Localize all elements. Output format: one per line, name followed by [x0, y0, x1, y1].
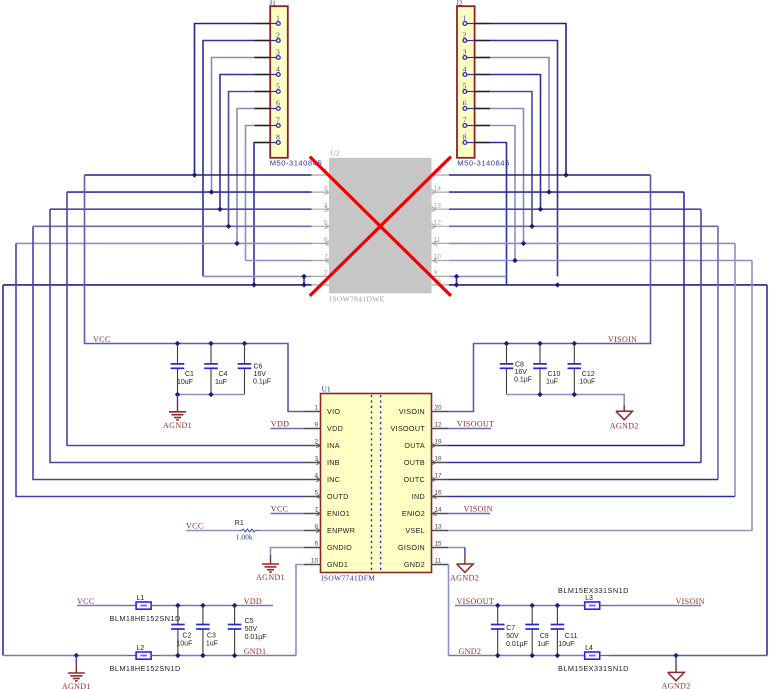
- wire J1 pin 7 row to U2 pin 7: [246, 260, 312, 262]
- wire net VISOOUT to L3: [455, 605, 574, 607]
- wire net GND1 rail from L2 to U1 GND1: [161, 655, 296, 657]
- svg-text:0.1µF: 0.1µF: [514, 377, 532, 384]
- svg-text:1uF: 1uF: [206, 640, 218, 647]
- wire net VCC: bus row to U2 pin 1: [85, 174, 312, 176]
- capacitor C8: [500, 344, 514, 395]
- U2 pin 11 (right): [432, 237, 450, 246]
- capacitor C6: [238, 344, 252, 395]
- svg-text:VISOOUT: VISOOUT: [457, 420, 495, 429]
- svg-text:10uF: 10uF: [177, 379, 193, 386]
- svg-text:C7: C7: [506, 625, 515, 632]
- wire J1 pin 7 to left bus row: [246, 126, 255, 261]
- resistor R1: [186, 529, 304, 532]
- wire J2 pin 7 to right bus row: [490, 126, 515, 261]
- svg-text:C9: C9: [540, 633, 549, 640]
- wire net VDD to U1 pin 9: [271, 428, 305, 430]
- wire U1 pin 11 GND2 down to GND2 rail: [447, 565, 450, 656]
- svg-text:OUTC: OUTC: [403, 475, 425, 484]
- J1 pin 3: [255, 48, 281, 60]
- svg-text:19: 19: [435, 438, 443, 445]
- capacitor C7 labels: [506, 625, 528, 648]
- J2 pin 8: [463, 133, 490, 145]
- junctions on VISOIN rail: [504, 341, 577, 346]
- svg-text:BLM18HE152SN1D: BLM18HE152SN1D: [110, 614, 181, 623]
- svg-text:OUTA: OUTA: [404, 441, 425, 450]
- svg-text:4: 4: [463, 65, 467, 74]
- svg-text:2: 2: [463, 31, 467, 40]
- wire J1 pin 1 to left bus row: [195, 24, 255, 176]
- junctions on right bus rows: [454, 172, 569, 287]
- svg-text:15: 15: [435, 540, 443, 547]
- svg-text:INA: INA: [327, 441, 340, 450]
- svg-text:C10: C10: [548, 371, 561, 378]
- svg-text:VISOIN: VISOIN: [608, 335, 637, 344]
- svg-text:VCC: VCC: [271, 504, 289, 513]
- wire net INB: down left side to U1 pin 3: [50, 209, 304, 462]
- svg-text:C11: C11: [565, 633, 577, 640]
- svg-text:U2: U2: [331, 148, 340, 157]
- svg-text:BLM15EX331SN1D: BLM15EX331SN1D: [558, 664, 629, 673]
- capacitor C2 labels: [176, 632, 192, 647]
- connector J2 body: [457, 6, 475, 158]
- U1 pin 11 GND2 (right): [404, 557, 448, 569]
- capacitor C11: [551, 606, 565, 656]
- IC U1 body (ISOW7741DFM): [321, 394, 432, 573]
- ground AGND2 (top right): [616, 406, 633, 420]
- wire U1 pin 10 GND1 down to GND1 rail: [296, 565, 304, 656]
- wire J2 pin 8 to right bus row: [490, 143, 507, 285]
- U1 pin 18 OUTB (right): [404, 455, 448, 467]
- wire net OUTA: down right side to U1 pin 19: [448, 192, 684, 445]
- U1 pin 2 INA (left): [304, 438, 340, 450]
- svg-text:7: 7: [276, 116, 280, 125]
- svg-text:VIO: VIO: [327, 407, 340, 416]
- wire J2 pin 5 to right bus row: [490, 92, 532, 227]
- svg-text:GND2: GND2: [459, 647, 482, 656]
- U1 pin 3 INB (left): [304, 455, 340, 467]
- svg-text:16V: 16V: [515, 369, 528, 376]
- svg-text:2: 2: [324, 270, 328, 277]
- U1 pin 19 OUTA (right): [404, 438, 448, 450]
- svg-text:J1: J1: [269, 0, 276, 8]
- capacitor C5 labels: [245, 618, 267, 641]
- wire net VISOIN from L3: [609, 605, 701, 607]
- svg-text:0.1µF: 0.1µF: [253, 378, 271, 385]
- wire net VSEL: down right side to U1 pin 13: [448, 261, 752, 531]
- svg-text:L4: L4: [585, 645, 593, 652]
- J2 pin 3: [463, 48, 490, 60]
- svg-text:50V: 50V: [245, 626, 258, 633]
- U2 pin 6 (left): [312, 237, 330, 246]
- U2 pin 16 (right): [432, 168, 450, 175]
- U1 isolation barrier dotted lines: [372, 395, 381, 571]
- svg-text:5: 5: [463, 82, 467, 91]
- svg-text:ENPWR: ENPWR: [327, 526, 355, 535]
- wire net IND: down right side to U1 pin 16: [448, 243, 735, 496]
- U1 pin 12 VISOOUT (right): [391, 421, 448, 433]
- U2 pin 7 (left): [312, 254, 330, 263]
- J1 pin 2: [255, 31, 281, 43]
- svg-text:C4: C4: [219, 371, 228, 378]
- svg-text:C6: C6: [254, 363, 263, 370]
- svg-text:10uF: 10uF: [558, 641, 574, 648]
- svg-text:VISOIN: VISOIN: [399, 407, 425, 416]
- wire net INC: down left side to U1 pin 4: [33, 226, 304, 479]
- U1 pin 13 VSEL (right): [405, 523, 448, 535]
- svg-text:AGND2: AGND2: [662, 681, 691, 689]
- wire net INC: bus row to U2 pin 5: [33, 225, 312, 227]
- J2 pin 1: [463, 14, 490, 26]
- svg-text:GNDIO: GNDIO: [327, 543, 352, 552]
- svg-text:6: 6: [276, 99, 280, 108]
- J2 pin 6: [463, 99, 490, 111]
- U2 pin 3 (left): [312, 185, 330, 194]
- svg-text:9: 9: [314, 421, 318, 428]
- U1 pin 14 ENIO2 (right): [402, 506, 448, 518]
- wire net GND2: bus row to U2 pin 15: [449, 284, 767, 286]
- capacitor C7: [491, 606, 505, 656]
- svg-text:AGND2: AGND2: [450, 574, 479, 583]
- wire J1 pin 8 to left bus row: [253, 143, 256, 285]
- svg-text:AGND1: AGND1: [163, 421, 192, 430]
- capacitor C10 labels: [546, 371, 560, 386]
- svg-text:5: 5: [276, 82, 280, 91]
- wire capacitor C8/C10/C12 ground rail: [507, 395, 625, 411]
- svg-text:3: 3: [276, 48, 280, 57]
- wire net OUTC: down right side to U1 pin 17: [448, 226, 718, 479]
- ground AGND1 (bottom left): [68, 656, 85, 681]
- svg-text:1: 1: [314, 404, 318, 411]
- svg-text:1uF: 1uF: [537, 641, 549, 648]
- svg-text:VISOIN: VISOIN: [676, 597, 705, 606]
- U1 pin 6 GNDIO (left): [304, 540, 352, 552]
- svg-text:6: 6: [314, 540, 318, 547]
- svg-text:ISOW7841DWE: ISOW7841DWE: [330, 295, 385, 304]
- capacitor C4: [204, 344, 218, 395]
- svg-text:VISOOUT: VISOOUT: [391, 424, 426, 433]
- J2 pin 7: [463, 116, 490, 128]
- svg-text:R1: R1: [235, 520, 244, 527]
- U1 pin 10 GND1 (left): [304, 557, 348, 569]
- J1 pin 5: [255, 82, 281, 94]
- capacitor C3: [196, 606, 210, 656]
- wire J1 pin 2 row to U2 pin 2: [203, 275, 312, 277]
- svg-text:1: 1: [463, 14, 467, 23]
- svg-text:GISOIN: GISOIN: [398, 543, 425, 552]
- wire net VCC: left bus down to VCC rail: [85, 175, 305, 412]
- U2 pin 10 (right): [432, 254, 450, 263]
- svg-text:VCC: VCC: [93, 335, 111, 344]
- U1 pin 1 VIO (left): [304, 404, 340, 416]
- svg-text:1: 1: [276, 14, 280, 23]
- svg-text:1uF: 1uF: [546, 378, 558, 385]
- wire J2 pin 6 to right bus row: [490, 109, 524, 244]
- svg-text:INC: INC: [327, 475, 340, 484]
- svg-text:VDD: VDD: [271, 420, 289, 429]
- junctions on GND1 rail: [74, 653, 238, 658]
- junctions on VDD rail: [175, 603, 237, 608]
- svg-text:L1: L1: [137, 595, 145, 602]
- junctions on C1/C4/C6 ground rail: [175, 392, 214, 397]
- svg-text:7: 7: [463, 116, 467, 125]
- wire net VDD from L1 to U1 area: [161, 605, 273, 607]
- U2 pin 2 (left): [312, 270, 330, 277]
- ground AGND2 (bottom right): [668, 656, 685, 681]
- svg-text:17: 17: [435, 472, 443, 479]
- wire net GND2: down far right to GND2 rail: [766, 285, 768, 656]
- wire J2 pin 2 to right bus row: [490, 41, 558, 277]
- U1 pin 20 VISOIN (right): [399, 404, 448, 416]
- wire capacitor C1/C4/C6 ground rail: [178, 394, 245, 396]
- svg-text:13: 13: [435, 523, 443, 530]
- wire net INA: bus row to U2 pin 3: [67, 191, 312, 193]
- wire J2 pin 3 to right bus row: [490, 58, 549, 193]
- svg-text:1.00k: 1.00k: [236, 532, 253, 541]
- capacitor C1 labels: [177, 371, 194, 386]
- svg-text:VSEL: VSEL: [405, 526, 425, 535]
- svg-text:M50-3140845: M50-3140845: [457, 158, 509, 167]
- U2 pin 12 (right): [432, 220, 450, 229]
- wire net VISOIN at U1 pin 14 ENIO2: [448, 513, 490, 515]
- svg-text:20: 20: [435, 404, 443, 411]
- svg-text:ISOW7741DFM: ISOW7741DFM: [321, 573, 375, 582]
- capacitor C8 labels: [514, 361, 532, 383]
- svg-text:C1: C1: [185, 371, 194, 378]
- capacitor C12: [568, 344, 582, 395]
- svg-text:12: 12: [435, 421, 443, 428]
- U2 pin 14 (right): [432, 185, 450, 194]
- U1 pin 15 GISOIN (right): [398, 540, 448, 552]
- U2 pin 5 (left): [312, 220, 330, 229]
- svg-text:1uF: 1uF: [215, 379, 227, 386]
- wire net GND1 rail (bottom left): [3, 655, 127, 657]
- svg-text:C8: C8: [515, 361, 524, 368]
- wire net INA: down left side to U1 pin 2: [67, 192, 304, 445]
- J2 pin 5: [463, 82, 490, 94]
- svg-text:C5: C5: [245, 618, 254, 625]
- U1 pin 7 ENIO1 (left): [304, 506, 350, 518]
- wire net OUTB: bus row to U2 pin 13: [449, 208, 701, 210]
- svg-text:14: 14: [435, 506, 443, 513]
- wire net GND1: bus row to U2 pin 8: [3, 284, 312, 286]
- J1 pin 6: [255, 99, 281, 111]
- inductor L3 BLM15EX331SN1D: [574, 602, 609, 609]
- wire J2 pin 4 to right bus row: [490, 75, 541, 210]
- wire net VSEL: bus row to U2 pin 10: [449, 260, 752, 262]
- svg-text:VISOIN: VISOIN: [464, 504, 493, 513]
- svg-text:16V: 16V: [254, 371, 267, 378]
- wire U1 pin 15 GISOIN to ground: [448, 548, 465, 556]
- junctions on C8/C10/C12 ground rail: [537, 392, 577, 397]
- ground AGND2 (at U1 GISOIN): [457, 555, 474, 572]
- U2 pin 1 (left): [312, 168, 330, 175]
- svg-text:J2: J2: [456, 0, 463, 8]
- U2 pin 9 (right): [432, 270, 450, 277]
- U1 pin 17 OUTC (right): [403, 472, 448, 484]
- capacitor C9 labels: [537, 633, 549, 648]
- svg-text:OUTB: OUTB: [404, 458, 425, 467]
- U2 not-fitted red cross: [310, 157, 451, 296]
- svg-text:U1: U1: [322, 384, 331, 393]
- svg-text:VCC: VCC: [186, 521, 204, 530]
- wire net OUTD: bus row to U2 pin 6: [16, 242, 312, 244]
- wire net GND2 rail (bottom right): [449, 655, 585, 657]
- inductor L1 BLM18HE152SN1D: [127, 602, 161, 609]
- U2 pin 4 (left): [312, 202, 330, 211]
- wire J2 pin 1 to right bus row: [490, 24, 566, 176]
- wire net VISOOUT at U1 pin 12: [448, 428, 491, 430]
- svg-text:9: 9: [434, 270, 438, 277]
- U1 pin 16 IND (right): [412, 489, 448, 501]
- svg-text:10: 10: [311, 557, 319, 564]
- svg-text:2: 2: [276, 31, 280, 40]
- capacitor C10: [533, 344, 547, 395]
- capacitor C9: [525, 606, 539, 656]
- wire net OUTB: down right side to U1 pin 18: [448, 209, 701, 462]
- svg-text:50V: 50V: [506, 633, 519, 640]
- wire net OUTC: bus row to U2 pin 12: [449, 225, 718, 227]
- svg-text:18: 18: [435, 455, 443, 462]
- svg-text:C3: C3: [207, 632, 216, 639]
- svg-text:BLM15EX331SN1D: BLM15EX331SN1D: [558, 586, 629, 595]
- J2 pin 2: [463, 31, 490, 43]
- wire J1 pin 6 to left bus row: [237, 109, 255, 244]
- svg-text:ENIO1: ENIO1: [327, 509, 350, 518]
- junctions on VCC rail: [175, 341, 247, 346]
- svg-text:AGND1: AGND1: [62, 682, 91, 689]
- svg-text:IND: IND: [412, 492, 425, 501]
- U1 pin 9 VDD (left): [304, 421, 343, 433]
- svg-text:16: 16: [435, 489, 443, 496]
- capacitor C11 labels: [558, 633, 577, 648]
- wire net INB: bus row to U2 pin 4: [50, 208, 312, 210]
- U2 pin 8 (left): [312, 278, 330, 285]
- svg-text:OUTD: OUTD: [327, 492, 349, 501]
- svg-text:L2: L2: [137, 645, 145, 652]
- junctions on VISOOUT rail: [495, 603, 560, 608]
- wire J1 pin 4 to left bus row: [220, 75, 255, 210]
- wire net IND: bus row to U2 pin 11: [449, 242, 735, 244]
- capacitor C12 labels: [579, 371, 595, 386]
- svg-text:0.01µF: 0.01µF: [506, 641, 528, 648]
- svg-text:ENIO2: ENIO2: [402, 509, 425, 518]
- svg-text:8: 8: [276, 133, 280, 142]
- svg-text:BLM18HE152SN1D: BLM18HE152SN1D: [110, 664, 181, 673]
- U1 pin 5 OUTD (left): [304, 489, 349, 501]
- junctions on left bus rows: [192, 172, 307, 287]
- J1 pin 4: [255, 65, 281, 77]
- capacitor C1: [171, 344, 185, 395]
- svg-text:6: 6: [463, 99, 467, 108]
- wire net GND1: down far left to GND1 rail: [2, 285, 4, 656]
- svg-text:INB: INB: [327, 458, 340, 467]
- svg-text:10uF: 10uF: [579, 378, 595, 385]
- wire net GND2 rail from L4 to far right: [609, 655, 767, 657]
- J1 pin 8: [255, 133, 281, 145]
- U1 pin 8 ENPWR (left): [304, 523, 355, 535]
- svg-text:0.01µF: 0.01µF: [245, 634, 267, 641]
- svg-text:C12: C12: [582, 371, 595, 378]
- capacitor C2: [171, 606, 185, 656]
- wire GND2 tie between U2 pin 9 and pin 15 rows: [456, 276, 458, 285]
- svg-text:AGND1: AGND1: [256, 573, 285, 582]
- junctions on GND2 rail: [495, 653, 679, 658]
- capacitor C4 labels: [215, 371, 228, 386]
- svg-text:8: 8: [463, 133, 467, 142]
- svg-text:GND1: GND1: [327, 560, 348, 569]
- connector J1 body: [270, 6, 288, 158]
- svg-text:3: 3: [463, 48, 467, 57]
- capacitor C6 labels: [253, 363, 271, 385]
- svg-text:AGND2: AGND2: [610, 421, 639, 430]
- J2 pin 4: [463, 65, 490, 77]
- wire J1 pin 5 to left bus row: [229, 92, 255, 227]
- svg-text:VCC: VCC: [77, 597, 95, 606]
- inductor L2 BLM18HE152SN1D: [127, 652, 161, 659]
- wire J1 pin 3 to left bus row: [212, 58, 255, 193]
- U1 pin 4 INC (left): [304, 472, 340, 484]
- wire net VISOIN: bus row to U2 pin 16: [449, 174, 651, 176]
- J1 pin 7: [255, 116, 281, 128]
- wire J1 pin 2 to left bus row: [203, 41, 255, 277]
- svg-text:11: 11: [435, 557, 442, 564]
- wire net OUTD: down left side to U1 pin 5: [16, 243, 304, 496]
- IC U2 body (not fitted, ISOW7841DWE): [329, 158, 432, 293]
- J1 pin 1: [255, 14, 281, 26]
- svg-text:GND2: GND2: [404, 560, 425, 569]
- wire net VCC to U1 pin 7 ENIO1: [271, 513, 305, 515]
- ground AGND1 (below C1): [169, 395, 186, 420]
- U2 pin 15 (right): [432, 278, 450, 285]
- wire U1 pin 6 GNDIO to ground: [271, 548, 305, 556]
- wire net OUTA: bus row to U2 pin 14: [449, 191, 684, 193]
- wire J2 pin 8 row to U2 pin 9: [449, 275, 507, 277]
- wire net VISOIN: right bus down to VISOIN rail: [448, 175, 651, 412]
- wire GND1 tie between U2 pin 2 and pin 8 rows: [303, 276, 305, 285]
- svg-text:10uF: 10uF: [176, 640, 192, 647]
- svg-text:VDD: VDD: [244, 597, 262, 606]
- U2 pin 13 (right): [432, 202, 450, 211]
- svg-text:4: 4: [276, 65, 280, 74]
- svg-text:C2: C2: [182, 632, 191, 639]
- capacitor C5: [228, 606, 242, 656]
- ground AGND1 (at U1 GNDIO): [262, 555, 279, 572]
- svg-text:VISOOUT: VISOOUT: [457, 597, 495, 606]
- inductor L4 BLM15EX331SN1D: [585, 652, 610, 659]
- svg-text:VDD: VDD: [327, 424, 343, 433]
- svg-text:L3: L3: [585, 595, 593, 602]
- capacitor C3 labels: [206, 632, 218, 647]
- svg-text:GND1: GND1: [244, 647, 267, 656]
- wire net VCC to L1: [77, 605, 127, 607]
